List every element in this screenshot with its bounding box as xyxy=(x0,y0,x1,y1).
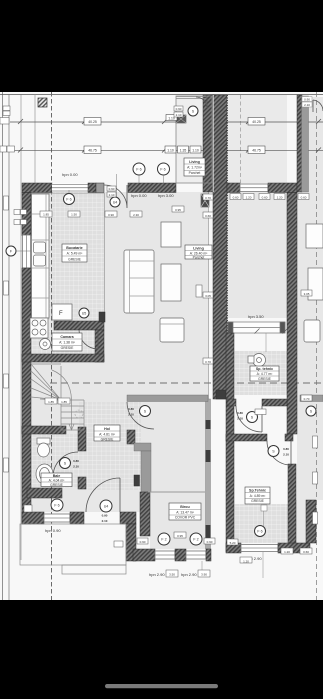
baie-hol divider wall xyxy=(78,427,86,451)
kitchen/camara divider wall xyxy=(54,321,104,330)
top wall segment A xyxy=(22,183,52,193)
middle unit courtyard top xyxy=(228,95,287,183)
svg-text:A: 4.77 m²: A: 4.77 m² xyxy=(257,372,274,376)
birou bottom wall mid xyxy=(175,549,186,561)
svg-text:F 6: F 6 xyxy=(66,198,71,202)
svg-text:A: 4.81 m²: A: 4.81 m² xyxy=(99,433,116,437)
svg-text:0.90: 0.90 xyxy=(304,98,310,102)
svg-text:0.90: 0.90 xyxy=(102,514,108,518)
middle unit sp tehnic upper tiled xyxy=(234,351,287,395)
left outer wall upper xyxy=(22,193,31,236)
dashed vertical middle unit x240 xyxy=(240,95,242,183)
svg-text:Baie: Baie xyxy=(53,474,61,478)
svg-text:40.25: 40.25 xyxy=(88,120,97,124)
kitchen tiled floor xyxy=(31,192,104,320)
coffee table xyxy=(161,264,181,301)
svg-text:hpn 3.00: hpn 3.00 xyxy=(158,193,174,198)
svg-text:0.70: 0.70 xyxy=(304,397,310,401)
middle corridor door arc xyxy=(236,406,262,432)
svg-text:3.50: 3.50 xyxy=(169,573,175,577)
hpn texts xyxy=(45,172,264,577)
svg-text:0.60: 0.60 xyxy=(262,196,268,200)
left margin boxes xyxy=(3,106,10,111)
dim line top 1 xyxy=(10,121,176,123)
baie tiled floor xyxy=(31,434,78,488)
middle unit upper floor strip xyxy=(228,192,287,318)
svg-text:1.10: 1.10 xyxy=(167,149,174,153)
svg-text:0.95: 0.95 xyxy=(177,534,183,538)
porch right wall xyxy=(203,95,213,192)
shaft block near party wall xyxy=(201,194,209,207)
entry door U4 arc (top wall) xyxy=(104,185,127,208)
kitchen counter xyxy=(32,194,50,318)
left unit thin right wall along gang xyxy=(206,399,211,549)
right party wall xyxy=(287,193,297,435)
hol-birou door wall xyxy=(127,430,135,444)
svg-text:0.90: 0.90 xyxy=(109,187,115,191)
stairs straight flight xyxy=(31,364,84,430)
middle unit sp tehnic lower tiled xyxy=(234,504,288,543)
svg-text:0.90: 0.90 xyxy=(108,213,114,217)
window dim ticks xyxy=(227,329,288,353)
right unit mirrored table xyxy=(308,268,323,300)
small dim boxes along walls xyxy=(0,106,318,577)
fridge F xyxy=(52,304,72,320)
svg-text:GRESIE: GRESIE xyxy=(61,346,75,350)
svg-text:2.10: 2.10 xyxy=(102,519,108,523)
right unit entrance arc xyxy=(313,100,323,112)
svg-text:F 6: F 6 xyxy=(257,530,262,534)
stairs dashed circle column xyxy=(75,410,83,418)
right unit mirrored armchair xyxy=(304,320,320,342)
svg-text:40.25: 40.25 xyxy=(252,120,261,124)
svg-text:GRESIE: GRESIE xyxy=(258,377,272,381)
svg-text:A: 1.38 m²: A: 1.38 m² xyxy=(59,341,76,345)
svg-text:2.10: 2.10 xyxy=(176,113,182,117)
porch outline xyxy=(176,96,212,183)
svg-text:Sp.Tehnic: Sp.Tehnic xyxy=(249,489,266,493)
middle unit bottom wall xyxy=(226,543,241,553)
bath sink xyxy=(36,464,53,484)
svg-text:0.60: 0.60 xyxy=(301,196,307,200)
svg-text:F 6: F 6 xyxy=(136,168,141,172)
party wall end block xyxy=(216,390,228,399)
svg-text:1.10: 1.10 xyxy=(192,149,199,153)
svg-text:F 2: F 2 xyxy=(193,538,198,542)
marker circles xyxy=(6,106,316,545)
dim line top 2 xyxy=(10,149,323,151)
middle unit front wall xyxy=(227,183,240,193)
sp tehnic label leader xyxy=(261,505,267,511)
bottom wall A (left) xyxy=(22,512,44,524)
svg-text:2.10: 2.10 xyxy=(128,413,134,417)
svg-text:0.80: 0.80 xyxy=(128,407,134,411)
baie bottom wall xyxy=(27,488,62,498)
birou bottom window 1 xyxy=(155,551,175,559)
camara right wall xyxy=(95,330,104,362)
svg-text:1.20: 1.20 xyxy=(246,196,252,200)
wall stub down to birou wing xyxy=(126,524,136,561)
svg-text:0.80: 0.80 xyxy=(237,411,243,415)
stove xyxy=(30,318,48,338)
svg-text:GRESIE: GRESIE xyxy=(101,438,115,442)
middle unit left wall lower xyxy=(226,333,234,552)
svg-text:0.60: 0.60 xyxy=(233,196,239,200)
middle unit front window xyxy=(240,184,268,192)
svg-text:Living: Living xyxy=(189,160,200,164)
sp tehnic upper bottom wall w/ door gap xyxy=(227,399,236,406)
svg-text:Sp. tehnic: Sp. tehnic xyxy=(256,367,273,371)
svg-text:1.85: 1.85 xyxy=(43,213,49,217)
svg-text:F: F xyxy=(59,311,63,317)
svg-text:3.05: 3.05 xyxy=(205,294,211,298)
svg-text:GRESIE: GRESIE xyxy=(251,499,265,503)
right unit mirrored tv cabinet xyxy=(306,224,323,248)
right unit floor main xyxy=(297,192,323,500)
living-hol door arc xyxy=(127,402,154,429)
insulation dots party wall xyxy=(226,95,228,399)
svg-text:Camara: Camara xyxy=(60,335,74,339)
svg-text:0.70: 0.70 xyxy=(205,360,211,364)
svg-text:0.80: 0.80 xyxy=(283,447,289,451)
svg-text:hpn 2.90: hpn 2.90 xyxy=(149,572,165,577)
hol tiled floor xyxy=(78,402,141,490)
svg-text:U4: U4 xyxy=(104,505,109,509)
right unit entrance wall top xyxy=(297,95,302,192)
paper xyxy=(0,92,323,600)
left outer wall lower xyxy=(22,268,31,524)
camara tiled floor xyxy=(31,330,95,355)
birou bottom wall xyxy=(133,549,155,561)
right unit floor top xyxy=(309,97,323,192)
boiler camara xyxy=(40,339,51,350)
svg-text:GRESIE: GRESIE xyxy=(50,483,64,487)
svg-text:1.20: 1.20 xyxy=(243,560,249,564)
svg-text:46.75: 46.75 xyxy=(88,149,97,153)
svg-text:hpn 3.50: hpn 3.50 xyxy=(248,314,264,319)
living-hol wall xyxy=(127,395,208,402)
room label boxes xyxy=(41,158,279,520)
birou bottom wall right xyxy=(206,549,211,561)
svg-text:0.60: 0.60 xyxy=(205,214,211,218)
porch interior xyxy=(176,96,203,183)
dim line left inner xyxy=(8,95,10,601)
right unit floor bottom sliver xyxy=(296,500,306,543)
svg-text:5.20: 5.20 xyxy=(230,541,236,545)
svg-text:46.75: 46.75 xyxy=(252,149,261,153)
bottom wall C corner xyxy=(120,512,136,524)
porch door S arc xyxy=(196,97,207,108)
kitchen window left wall xyxy=(23,235,31,268)
armchair xyxy=(160,318,184,342)
svg-text:0.90: 0.90 xyxy=(207,540,213,544)
svg-text:1.35: 1.35 xyxy=(180,149,187,153)
svg-text:2.10: 2.10 xyxy=(237,417,243,421)
home indicator xyxy=(105,684,218,688)
birou floor xyxy=(150,430,207,549)
svg-text:2.10: 2.10 xyxy=(73,465,79,469)
top lot line full width xyxy=(0,94,323,96)
vertical line x35 xyxy=(34,95,36,184)
svg-text:hpn 2.90: hpn 2.90 xyxy=(181,572,197,577)
property line left xyxy=(2,92,4,600)
svg-text:3.90: 3.90 xyxy=(201,573,207,577)
svg-text:0.90: 0.90 xyxy=(140,540,146,544)
svg-text:GRESIE: GRESIE xyxy=(68,258,82,262)
svg-text:Parchet: Parchet xyxy=(189,171,201,175)
middle unit front wall b xyxy=(268,183,297,193)
boiler sp tehnic upper xyxy=(253,354,266,367)
bottom wall B xyxy=(70,512,84,524)
window kitchen top (sill) xyxy=(52,184,88,193)
dim boxes top lines xyxy=(84,115,265,154)
U5 camara door arc xyxy=(79,330,98,349)
sp tehnic lower top wall w/ door gap xyxy=(226,434,267,441)
section dashed horizontal y383 xyxy=(50,382,323,384)
door arcs xyxy=(53,97,323,578)
svg-text:F 6: F 6 xyxy=(160,168,165,172)
middle unit terrace window y322 xyxy=(228,322,285,333)
svg-text:1.20: 1.20 xyxy=(284,550,290,554)
top wall segment C (right of entry door) xyxy=(128,183,176,193)
svg-text:1.20: 1.20 xyxy=(277,196,283,200)
svg-text:hpn 0.00: hpn 0.00 xyxy=(131,193,147,198)
birou top line xyxy=(148,491,205,493)
svg-text:2.10: 2.10 xyxy=(304,103,310,107)
svg-text:Bucatarie: Bucatarie xyxy=(66,246,82,250)
baie door arc xyxy=(53,452,78,477)
bottom dim leaders xyxy=(201,561,203,576)
svg-text:Living: Living xyxy=(193,247,204,251)
svg-text:2.30: 2.30 xyxy=(133,213,139,217)
leader lines from window circles xyxy=(16,175,164,251)
baie top wall xyxy=(22,426,66,434)
svg-text:Parchet: Parchet xyxy=(193,256,205,260)
left unit main floor (living etc) xyxy=(30,192,208,512)
svg-text:0.60: 0.60 xyxy=(303,550,309,554)
sp tehnic lower right wall xyxy=(288,464,296,552)
toilet xyxy=(37,438,50,444)
right unit bottom corner wall xyxy=(306,500,316,543)
section dashed vertical x51 xyxy=(51,92,53,600)
sp tehnic lower door arc xyxy=(267,441,291,465)
camara bottom wall xyxy=(22,354,104,362)
right unit living-hol wall mirrored xyxy=(300,395,323,402)
svg-text:hpn 0.90: hpn 0.90 xyxy=(45,528,61,533)
svg-text:COVOR PVC: COVOR PVC xyxy=(175,516,196,520)
svg-text:Birou: Birou xyxy=(180,505,189,509)
svg-text:A: 1.72m²: A: 1.72m² xyxy=(187,166,203,170)
bottom window F6 xyxy=(44,514,70,522)
kitchen sink xyxy=(34,242,46,253)
leader dashed vertical x116 xyxy=(116,174,118,197)
svg-text:1.85: 1.85 xyxy=(48,400,54,404)
terrace slab bottom xyxy=(20,524,126,574)
svg-text:0.80: 0.80 xyxy=(73,459,79,463)
svg-text:A: 4.04 m²: A: 4.04 m² xyxy=(49,479,66,483)
svg-text:F 6: F 6 xyxy=(54,504,59,508)
svg-text:U4: U4 xyxy=(113,201,118,205)
svg-text:A: 4.89 m²: A: 4.89 m² xyxy=(250,494,267,498)
svg-text:3.05: 3.05 xyxy=(304,292,310,296)
tv cabinet xyxy=(161,222,181,247)
middle bottom wall right xyxy=(278,543,310,553)
ticks on dim lines xyxy=(18,119,321,153)
dashed vertical right x316 xyxy=(316,92,318,600)
svg-text:0.90: 0.90 xyxy=(176,107,182,111)
svg-text:U5: U5 xyxy=(82,312,87,316)
N orientation box xyxy=(38,98,47,107)
stairs winders xyxy=(31,364,61,400)
svg-text:A: 13.47 m²: A: 13.47 m² xyxy=(176,511,194,515)
party wall left/middle xyxy=(213,95,227,399)
porch small block xyxy=(176,115,186,123)
svg-text:hpn 0.00: hpn 0.00 xyxy=(62,172,78,177)
top wall segment B xyxy=(88,183,96,193)
middle bottom window xyxy=(241,545,278,552)
birou left wall xyxy=(140,492,150,536)
svg-text:0.70: 0.70 xyxy=(205,196,211,200)
sofa xyxy=(124,250,154,313)
svg-text:A: 5.49 m²: A: 5.49 m² xyxy=(67,252,84,256)
svg-text:0.95: 0.95 xyxy=(175,208,181,212)
birou bottom window 2 xyxy=(186,551,206,559)
svg-text:2.10: 2.10 xyxy=(283,453,289,457)
svg-text:1.50: 1.50 xyxy=(71,213,77,217)
svg-text:2.10: 2.10 xyxy=(109,193,115,197)
svg-text:1.85: 1.85 xyxy=(61,400,67,404)
bottom entry door U4 arc xyxy=(86,478,120,512)
svg-text:Hol: Hol xyxy=(104,427,110,431)
svg-text:F 2: F 2 xyxy=(161,538,166,542)
